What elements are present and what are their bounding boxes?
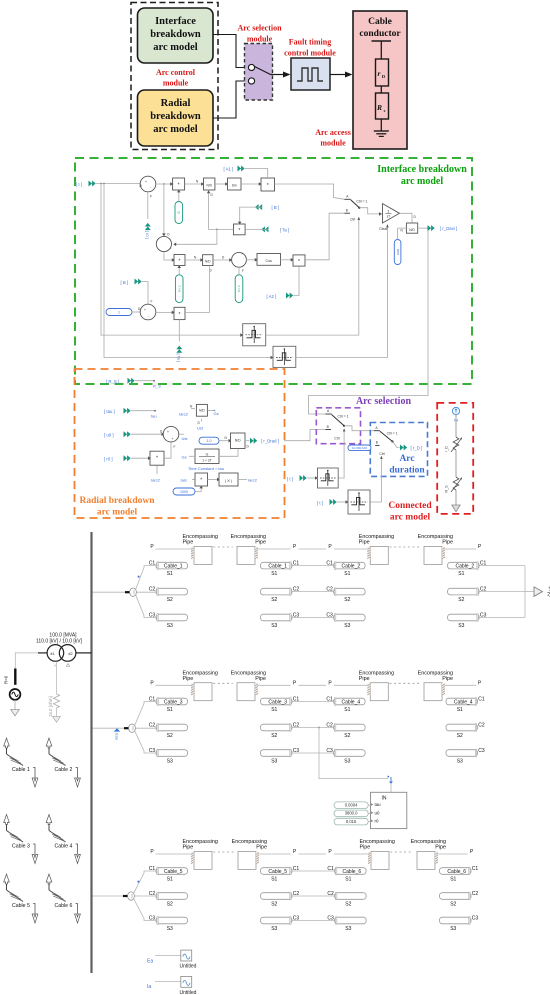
wire Gs to TF bbox=[182, 455, 196, 460]
cable stub Cable_1 S2 (left end) bbox=[156, 588, 188, 596]
variable resistor RS bbox=[445, 477, 463, 493]
Sin block bbox=[228, 178, 242, 190]
svg-text:Fault timing: Fault timing bbox=[289, 38, 331, 47]
wire C3 link Cable_1-Cable_2 bbox=[292, 617, 334, 619]
cable stub Cable_5 S1 (right end) bbox=[261, 867, 293, 875]
wire source to ground bbox=[14, 700, 16, 710]
svg-text:C2: C2 bbox=[149, 586, 156, 592]
node [t] input 2 bbox=[317, 499, 337, 506]
title: Radial breakdown arc model bbox=[79, 496, 155, 518]
cable feeder icon Cable 4 bbox=[46, 815, 80, 864]
svg-text:Cable_3: Cable_3 bbox=[268, 699, 287, 705]
wire M1 out bbox=[266, 218, 359, 336]
cable stub Cable_6 S2 (left end) bbox=[335, 892, 367, 900]
svg-text:Radial breakdown: Radial breakdown bbox=[79, 496, 155, 506]
encompassing pipe block (Cable_3) bbox=[191, 683, 212, 701]
svg-text:s: s bbox=[384, 108, 386, 113]
conductor top bar bbox=[372, 40, 392, 42]
wire SW1 to integrator bbox=[359, 208, 380, 214]
node [B] right bbox=[255, 204, 279, 210]
encompassing pipe block (Cable_1) bbox=[191, 546, 212, 564]
svg-text:Time Constant = tau: Time Constant = tau bbox=[188, 466, 224, 471]
svg-text:Interface: Interface bbox=[155, 16, 196, 27]
constant 10,300,100 oval bbox=[348, 445, 371, 451]
cable feeder icon Cable 1 bbox=[4, 738, 38, 787]
svg-text:Pipe: Pipe bbox=[183, 676, 194, 682]
label: Encompassing Pipe (Cable_2) bbox=[359, 534, 394, 546]
three-phase splitter row 3 bbox=[92, 871, 157, 921]
svg-text:+: + bbox=[145, 180, 147, 184]
label: Encompassing Pipe (Cable_6) bbox=[360, 839, 395, 851]
svg-text:[ R_S ]: [ R_S ] bbox=[106, 379, 119, 384]
arc duration dashed frame bbox=[370, 423, 427, 477]
svg-text:[ t ]: [ t ] bbox=[287, 477, 293, 482]
svg-text:S2: S2 bbox=[271, 733, 277, 739]
measurement label E3a (blue) bbox=[114, 728, 120, 740]
product P1 bbox=[173, 178, 185, 190]
wire Ta to PB bbox=[245, 228, 268, 230]
svg-text:Ctrl: Ctrl bbox=[379, 452, 385, 456]
svg-text:N/D: N/D bbox=[409, 228, 415, 232]
label: Arc access module bbox=[315, 128, 351, 148]
svg-text:S2: S2 bbox=[458, 597, 464, 603]
svg-text:+: + bbox=[144, 308, 146, 312]
wire B to S4 bbox=[142, 282, 148, 305]
meter Ia bbox=[147, 976, 197, 995]
wire P1 to ND1 bbox=[185, 183, 204, 185]
svg-text:Pi / 2: Pi / 2 bbox=[177, 285, 181, 292]
svg-text:Cable_2: Cable_2 bbox=[342, 563, 361, 569]
svg-text:S3: S3 bbox=[450, 926, 456, 932]
variable resistor rD bbox=[445, 437, 463, 452]
constant 3800.0 oval bbox=[334, 810, 371, 817]
svg-text:*: * bbox=[179, 259, 181, 265]
node [R_S] bbox=[106, 378, 135, 385]
svg-text:1000: 1000 bbox=[180, 490, 188, 494]
wire P-P link bbox=[299, 853, 327, 855]
wire pipe1-pipe2 dashed bbox=[213, 546, 233, 548]
svg-text:Iarc2: Iarc2 bbox=[151, 478, 161, 483]
wire S2 to P3 bbox=[164, 252, 174, 260]
label: Encompassing Pipe (Cable_2) bbox=[418, 534, 453, 546]
svg-text:[ Ta ]: [ Ta ] bbox=[177, 354, 182, 363]
wire interface box to selection switch bbox=[213, 35, 249, 68]
svg-text:Gs: Gs bbox=[182, 455, 187, 460]
wire rD to Rs bbox=[380, 86, 382, 93]
svg-text:Connected: Connected bbox=[388, 501, 432, 511]
svg-text:Pipe: Pipe bbox=[183, 845, 194, 851]
cable feeder icon Cable 2 bbox=[46, 738, 80, 787]
svg-text:S1: S1 bbox=[450, 876, 456, 882]
svg-text:S1: S1 bbox=[271, 876, 277, 882]
abs block |X| bbox=[208, 473, 239, 486]
svg-text:Pi / 2: Pi / 2 bbox=[237, 285, 241, 292]
node [A1] bbox=[224, 166, 245, 172]
wire pipe3-pipe4 dashed bbox=[390, 546, 420, 548]
svg-text:*: * bbox=[156, 456, 158, 462]
svg-text:Pipe: Pipe bbox=[255, 676, 266, 682]
selection switch SW2 bbox=[325, 409, 348, 440]
node [tau] bbox=[104, 408, 131, 414]
svg-text:R_S: R_S bbox=[153, 384, 161, 389]
svg-text:[ r_D ]: [ r_D ] bbox=[411, 445, 423, 450]
radial breakdown arc model dashed frame bbox=[75, 369, 285, 518]
svg-text:F: F bbox=[242, 269, 244, 273]
svg-text:i0: i0 bbox=[177, 211, 181, 214]
wire C2 tap to IN block bbox=[318, 727, 320, 729]
wire S3 to Cos bbox=[246, 259, 257, 261]
svg-text:3800.0: 3800.0 bbox=[345, 811, 358, 816]
svg-text:S3: S3 bbox=[167, 623, 173, 629]
cable stub Cable_3 S2 (left end) bbox=[156, 724, 188, 732]
divider ND5 bbox=[231, 433, 250, 449]
encompassing pipe block (Cable_6) bbox=[368, 851, 389, 869]
svg-text:Cos: Cos bbox=[265, 259, 272, 263]
svg-text:arc model: arc model bbox=[401, 176, 444, 187]
resistor Rs bbox=[376, 93, 389, 119]
svg-text:S1: S1 bbox=[271, 571, 277, 577]
svg-text:Cable_5: Cable_5 bbox=[268, 869, 287, 875]
node [B] left bbox=[121, 279, 142, 286]
ground symbol bbox=[374, 131, 389, 136]
wire 1 to S4 bbox=[132, 311, 140, 313]
voltage source bbox=[10, 689, 21, 700]
cable stub Cable_1 S3 (right end) bbox=[261, 614, 293, 622]
summer S2 bbox=[156, 233, 171, 252]
cable stub Cable_6 S1 (left end) bbox=[335, 867, 367, 875]
svg-text:S1: S1 bbox=[458, 571, 464, 577]
svg-text:[ A2 ]: [ A2 ] bbox=[267, 294, 277, 299]
svg-text:Pipe: Pipe bbox=[442, 540, 453, 546]
encompassing pipe block (Cable_2) bbox=[424, 546, 445, 564]
svg-text:*: * bbox=[298, 259, 300, 265]
wire pipe4 to P bbox=[445, 684, 476, 686]
cable stub Cable_5 S2 (right end) bbox=[261, 892, 293, 900]
svg-text:Pipe: Pipe bbox=[255, 540, 266, 546]
svg-text:Cable_2: Cable_2 bbox=[456, 563, 475, 569]
svg-text:C3: C3 bbox=[478, 748, 485, 754]
node [Ta] right bbox=[261, 226, 289, 232]
svg-text:16.0 [ohm]: 16.0 [ohm] bbox=[48, 696, 53, 717]
svg-text:[ A1 ]: [ A1 ] bbox=[224, 167, 234, 172]
node IN terminal bbox=[452, 407, 459, 422]
wire Pi/2a to P3 bbox=[178, 266, 180, 275]
svg-text:Cable_4: Cable_4 bbox=[342, 699, 361, 705]
product P3 bbox=[174, 255, 185, 266]
product P5 bbox=[174, 307, 185, 319]
label: Encompassing Pipe (Cable_5) bbox=[183, 839, 218, 851]
svg-text:S2: S2 bbox=[345, 901, 351, 907]
wire P3 to ND2 bbox=[185, 259, 203, 261]
label: Encompassing Pipe (Cable_4) bbox=[359, 671, 394, 683]
constant 0.015 oval bbox=[334, 818, 371, 825]
wire main row tap down to S2 bbox=[163, 183, 165, 185]
svg-text:S1: S1 bbox=[457, 707, 463, 713]
wire tau bbox=[131, 410, 155, 412]
wire Sin to P2 bbox=[241, 183, 261, 185]
svg-text:Pipe: Pipe bbox=[360, 845, 371, 851]
svg-text:r: r bbox=[378, 69, 381, 78]
cable stub Cable_4 S1 (right end) bbox=[446, 698, 478, 706]
constant 1000 oval bbox=[394, 240, 401, 265]
wire B to PB bbox=[240, 207, 263, 224]
node [r0] bbox=[104, 455, 131, 461]
svg-text:Ctrl: Ctrl bbox=[350, 217, 356, 221]
arrow into IN bbox=[388, 776, 393, 783]
svg-text:C2: C2 bbox=[478, 722, 485, 728]
svg-text:S1: S1 bbox=[344, 707, 350, 713]
wire M2 out to integrator clear bbox=[296, 225, 388, 358]
label: Encompassing Pipe (Cable_6) bbox=[411, 839, 446, 851]
wire C3 link Cable_3-Cable_4 bbox=[292, 752, 334, 754]
svg-text:Arc access: Arc access bbox=[315, 128, 351, 137]
svg-text:C2: C2 bbox=[472, 891, 479, 897]
constant 1.0 oval bbox=[199, 437, 219, 444]
product PB bbox=[234, 224, 246, 235]
svg-text:r0: r0 bbox=[375, 819, 379, 824]
svg-text:arc model: arc model bbox=[390, 513, 431, 523]
wire ND1 to Sin bbox=[215, 183, 228, 185]
svg-text:Pipe: Pipe bbox=[442, 676, 453, 682]
wire Pi/2b to S3 bbox=[238, 267, 240, 275]
summer S1 bbox=[140, 176, 156, 198]
cable stub Cable_5 S2 (left end) bbox=[156, 892, 188, 900]
svg-text:Ctrl = 1: Ctrl = 1 bbox=[387, 432, 398, 436]
cable stub Cable_4 S2 (left end) bbox=[334, 724, 366, 732]
arrow switch to fault timing module bbox=[271, 74, 284, 76]
label: Arc control module bbox=[156, 68, 196, 88]
svg-text:N/D: N/D bbox=[235, 439, 241, 443]
svg-text:tau: tau bbox=[151, 414, 157, 419]
cable stub Cable_6 S3 (right end) bbox=[440, 917, 472, 925]
svg-text:Cable_1: Cable_1 bbox=[268, 563, 287, 569]
product P6 bbox=[150, 451, 164, 482]
svg-text:G: G bbox=[206, 452, 209, 456]
svg-text:C1: C1 bbox=[472, 866, 479, 872]
arc control module dashed frame bbox=[131, 3, 218, 150]
svg-text:[ Ta ]: [ Ta ] bbox=[280, 227, 289, 232]
node [A2] bbox=[267, 293, 294, 299]
product P4 bbox=[293, 255, 305, 266]
svg-text:1: 1 bbox=[388, 209, 390, 213]
svg-text:1000: 1000 bbox=[396, 248, 400, 255]
svg-text:r_D: r_D bbox=[445, 446, 449, 452]
cable stub Cable_5 S1 (left end) bbox=[156, 867, 188, 875]
transfer function G/(1+sT) bbox=[195, 449, 219, 464]
wire IN to rD bbox=[455, 415, 457, 437]
wire r_Drad to duration switch B bbox=[284, 430, 325, 441]
svg-text:breakdown: breakdown bbox=[150, 29, 201, 40]
wire C1 link Cable_1-Cable_2 bbox=[292, 565, 334, 567]
svg-text:Interface breakdown: Interface breakdown bbox=[377, 164, 467, 175]
label: Encompassing Pipe (Cable_3) bbox=[231, 671, 266, 683]
wire S1 to P1 bbox=[156, 183, 173, 185]
ground arrow bbox=[452, 505, 460, 512]
svg-text:Cable_6: Cable_6 bbox=[343, 869, 362, 875]
svg-text:Gs: Gs bbox=[214, 411, 219, 416]
arrow fault timing to cable conductor bbox=[330, 74, 345, 76]
svg-text:S2: S2 bbox=[167, 901, 173, 907]
wire t to B4 bbox=[337, 501, 347, 503]
svg-text:S2: S2 bbox=[167, 733, 173, 739]
wire C2 link Cable_1-Cable_2 bbox=[292, 591, 334, 593]
svg-text:[ r_Davi ]: [ r_Davi ] bbox=[440, 226, 457, 231]
svg-text:S3: S3 bbox=[457, 758, 463, 764]
wire [I] down to monostable M1 bbox=[101, 184, 240, 336]
svg-text:Ctrl: Ctrl bbox=[334, 437, 340, 441]
resistor rD bbox=[376, 59, 389, 86]
svg-text:B: B bbox=[376, 441, 378, 445]
wire P6 to S5 bbox=[164, 442, 171, 458]
fault timing control module box bbox=[291, 58, 330, 90]
constant Pi/2 oval a bbox=[175, 275, 183, 303]
divider ND4 bbox=[179, 404, 219, 430]
wire 1.0 to ND5 bbox=[219, 440, 231, 442]
svg-text:C1: C1 bbox=[478, 696, 485, 702]
wire SW3 Ctrl from pulse B4 bbox=[370, 459, 381, 502]
encompassing pipe block (Cable_3) bbox=[237, 683, 258, 701]
wire R_S bbox=[135, 380, 154, 382]
wire S5 out Ust bbox=[179, 433, 184, 435]
three-phase splitter row 2 bbox=[92, 702, 157, 754]
svg-text:110.0 [kV] / 10.0 [kV]: 110.0 [kV] / 10.0 [kV] bbox=[36, 639, 83, 645]
svg-text:*: * bbox=[238, 228, 240, 234]
svg-text:S2: S2 bbox=[450, 901, 456, 907]
constant Pi/2 oval b bbox=[235, 275, 243, 303]
transformer T1 bbox=[38, 645, 92, 668]
wire top bar to rD bbox=[380, 41, 382, 59]
svg-text:C2: C2 bbox=[149, 722, 156, 728]
selection switch SW1 (Ctrl = 1) bbox=[345, 195, 383, 222]
wire pipe3-pipe4 dashed bbox=[390, 682, 420, 684]
summer S3 bbox=[232, 252, 247, 272]
svg-text:*: * bbox=[200, 478, 202, 484]
svg-text:Ia: Ia bbox=[147, 984, 151, 990]
svg-text:[ u0 ]: [ u0 ] bbox=[104, 433, 114, 438]
svg-text:0.0004: 0.0004 bbox=[345, 803, 358, 808]
interface breakdown arc model box bbox=[138, 8, 214, 63]
svg-text:module: module bbox=[320, 139, 346, 148]
svg-text:S3: S3 bbox=[271, 926, 277, 932]
encompassing pipe block (Cable_4) bbox=[367, 683, 388, 701]
svg-text:100.0 [MVA]: 100.0 [MVA] bbox=[49, 633, 77, 639]
svg-text:Cable 1: Cable 1 bbox=[12, 767, 30, 773]
cable stub Cable_1 S1 (right end) bbox=[261, 562, 293, 570]
cable stub Cable_1 S1 (left end) bbox=[156, 562, 188, 570]
wire pipe1-pipe2 dashed bbox=[213, 851, 234, 853]
summer S5 bbox=[163, 426, 179, 448]
svg-text:B: B bbox=[327, 425, 329, 429]
wire pipe4 to P bbox=[438, 853, 468, 855]
wire A2 to P4 bbox=[294, 266, 300, 295]
svg-text:Cable_4: Cable_4 bbox=[454, 699, 473, 705]
wire Rs to ground bbox=[380, 119, 382, 131]
duration switch SW3 bbox=[374, 426, 398, 459]
label: Encompassing Pipe (Cable_4) bbox=[418, 671, 453, 683]
svg-text:N/D: N/D bbox=[205, 260, 211, 264]
wire t to B3 bbox=[307, 477, 317, 479]
svg-text:1: 1 bbox=[118, 310, 120, 314]
wire RS to ground bbox=[455, 490, 457, 505]
svg-text:Cable 3: Cable 3 bbox=[12, 844, 30, 850]
cable stub Cable_5 S3 (left end) bbox=[156, 917, 188, 925]
constant i0 oval bbox=[175, 202, 183, 224]
svg-text:Cable: Cable bbox=[368, 17, 392, 27]
svg-text:1.0: 1.0 bbox=[207, 439, 212, 443]
svg-text:S2: S2 bbox=[457, 733, 463, 739]
wire P2 to switch A bbox=[275, 184, 345, 199]
svg-text:F: F bbox=[151, 300, 153, 304]
node [r_D] output bbox=[393, 442, 423, 451]
svg-text:*: * bbox=[178, 183, 180, 189]
svg-text:Arc selection: Arc selection bbox=[237, 24, 282, 33]
svg-text:S1: S1 bbox=[167, 876, 173, 882]
wire 1000 to P7 bbox=[195, 486, 201, 492]
svg-text:+: + bbox=[170, 247, 172, 251]
constant 0.0004 oval bbox=[334, 802, 371, 809]
label: Arc selection module bbox=[237, 24, 282, 44]
svg-text:S3: S3 bbox=[271, 623, 277, 629]
wire S4 to P5 bbox=[156, 311, 174, 313]
svg-text:Arc: Arc bbox=[399, 454, 414, 464]
svg-text:Cable_1: Cable_1 bbox=[164, 563, 183, 569]
svg-text:Ctrl = 1: Ctrl = 1 bbox=[356, 199, 367, 203]
wire P4 to switch B bbox=[305, 213, 345, 260]
encompassing pipe block (Cable_5) bbox=[238, 851, 259, 869]
svg-text:Pipe: Pipe bbox=[359, 676, 370, 682]
wire integrator to ND3 bbox=[400, 213, 413, 223]
wire P-P link bbox=[299, 548, 327, 550]
radial breakdown arc model box bbox=[138, 90, 214, 146]
wire I0 to S1 bbox=[147, 192, 149, 219]
title: Arc duration bbox=[389, 454, 425, 476]
wire C2 link Cable_3-Cable_4 bbox=[292, 727, 334, 729]
wire pipe1-pipe2 dashed bbox=[213, 682, 233, 684]
wire Ta to P5 bbox=[178, 320, 180, 342]
pulse block B4 bbox=[348, 490, 370, 514]
wire [I] to sum1 bbox=[96, 183, 140, 185]
monostable M1 bbox=[240, 324, 266, 346]
wire u0 to S5 bbox=[131, 433, 163, 435]
svg-text:Pipe: Pipe bbox=[183, 540, 194, 546]
wire r0 to P6 bbox=[131, 457, 150, 459]
encompassing pipe block (Cable_6) bbox=[417, 851, 438, 869]
svg-text:+: + bbox=[172, 437, 174, 441]
cable stub Cable_2 S3 (left end) bbox=[334, 614, 366, 622]
label: Fault timing control module bbox=[284, 38, 336, 58]
svg-text:Ust: Ust bbox=[182, 436, 189, 441]
svg-text:E3a: E3a bbox=[115, 733, 119, 741]
encompassing pipe block (Cable_4) bbox=[424, 683, 445, 701]
svg-text:conductor: conductor bbox=[359, 29, 401, 39]
encompassing pipe block (Cable_5) bbox=[191, 851, 212, 869]
load P+jQ bbox=[479, 566, 550, 618]
svg-text:Pipe: Pipe bbox=[256, 845, 267, 851]
cable stub Cable_4 S1 (left end) bbox=[334, 698, 366, 706]
svg-text:S1: S1 bbox=[167, 707, 173, 713]
wire 1000 to ND3 bbox=[398, 228, 407, 239]
svg-text:Iarc: Iarc bbox=[181, 478, 188, 483]
svg-text:S3: S3 bbox=[167, 926, 173, 932]
label: Encompassing Pipe (Cable_3) bbox=[183, 671, 218, 683]
svg-text:R=0: R=0 bbox=[4, 675, 9, 684]
cable stub Cable_1 S3 (left end) bbox=[156, 614, 188, 622]
wire PB to ND1 D input and S2 right input bbox=[209, 191, 234, 230]
svg-text:10,300,100: 10,300,100 bbox=[352, 446, 367, 450]
svg-text:#2: #2 bbox=[68, 652, 72, 656]
wire P to pipe3 bbox=[334, 684, 367, 686]
wire pipe4 to P bbox=[445, 548, 476, 550]
